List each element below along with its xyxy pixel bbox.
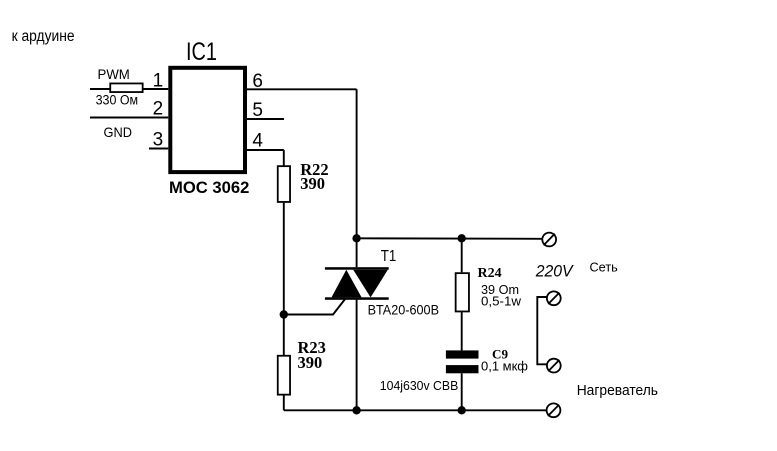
svg-text:220V: 220V xyxy=(535,262,575,280)
svg-text:PWM: PWM xyxy=(98,66,130,82)
svg-text:к ардуине: к ардуине xyxy=(12,28,75,45)
svg-text:5: 5 xyxy=(252,100,263,121)
svg-text:Нагреватель: Нагреватель xyxy=(577,383,658,399)
svg-text:GND: GND xyxy=(104,124,133,140)
svg-text:IC1: IC1 xyxy=(186,38,217,66)
svg-text:6: 6 xyxy=(252,71,263,92)
svg-text:1: 1 xyxy=(153,71,164,92)
svg-text:390: 390 xyxy=(298,353,323,372)
svg-text:T1: T1 xyxy=(381,248,397,265)
svg-text:R24: R24 xyxy=(478,266,502,281)
svg-text:MOC 3062: MOC 3062 xyxy=(169,178,249,197)
svg-text:0,5-1w: 0,5-1w xyxy=(481,295,522,309)
svg-text:BTA20-600B: BTA20-600B xyxy=(368,302,439,318)
svg-text:4: 4 xyxy=(252,131,263,152)
svg-text:0,1 мкф: 0,1 мкф xyxy=(481,360,528,374)
svg-text:2: 2 xyxy=(153,98,164,119)
svg-text:3: 3 xyxy=(153,130,164,151)
svg-text:Сеть: Сеть xyxy=(590,261,618,275)
svg-text:104j630v CBB: 104j630v CBB xyxy=(380,378,459,393)
svg-text:330 Ом: 330 Ом xyxy=(96,92,139,107)
svg-text:390: 390 xyxy=(300,174,325,193)
